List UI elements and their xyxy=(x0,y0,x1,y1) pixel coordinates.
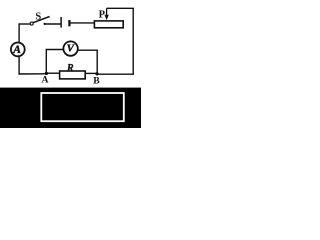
svg-text:P: P xyxy=(99,9,106,20)
wire: right vertical xyxy=(132,8,134,74)
wire: bottom horizontal right segment (corner to B) xyxy=(97,73,134,75)
black redaction band xyxy=(0,88,141,128)
switch S blade (open) xyxy=(33,17,50,23)
rheostat P body box xyxy=(94,21,123,28)
svg-text:R: R xyxy=(66,63,74,74)
svg-text:A: A xyxy=(42,75,49,86)
rheostat slider arrowhead xyxy=(105,15,109,20)
white box outline inside band xyxy=(41,93,124,121)
wire: left vertical from top corner down to ammeter top xyxy=(18,23,20,42)
battery long plate xyxy=(60,17,62,28)
wire: switch to battery xyxy=(45,23,61,25)
node B junction dot xyxy=(95,72,98,75)
wire: bottom horizontal B to resistor xyxy=(86,72,98,74)
rheostat slider arrow stem xyxy=(106,8,108,16)
wire: top horizontal from slider to right side xyxy=(107,7,134,9)
wire: battery to rheostat box xyxy=(70,22,94,24)
wire: bottom horizontal resistor to A junction xyxy=(46,72,60,74)
wire: left vertical ammeter bottom to bottom corner xyxy=(18,57,20,75)
wire: top-left horizontal from corner to switch left contact xyxy=(19,23,31,25)
voltmeter V circle xyxy=(63,41,77,55)
svg-text:A: A xyxy=(12,43,21,56)
switch right contact dot xyxy=(44,23,46,25)
wire: bottom horizontal A junction to left corner xyxy=(19,73,47,75)
resistor R box xyxy=(60,71,86,79)
switch S pivot contact circle xyxy=(30,22,33,25)
svg-text:B: B xyxy=(93,75,100,86)
ammeter A circle xyxy=(11,43,25,57)
voltmeter right bracket wire xyxy=(78,50,97,74)
node A junction dot xyxy=(45,72,48,75)
svg-text:S: S xyxy=(35,12,41,23)
battery short thick plate xyxy=(68,20,70,26)
voltmeter left bracket wire xyxy=(46,50,63,74)
